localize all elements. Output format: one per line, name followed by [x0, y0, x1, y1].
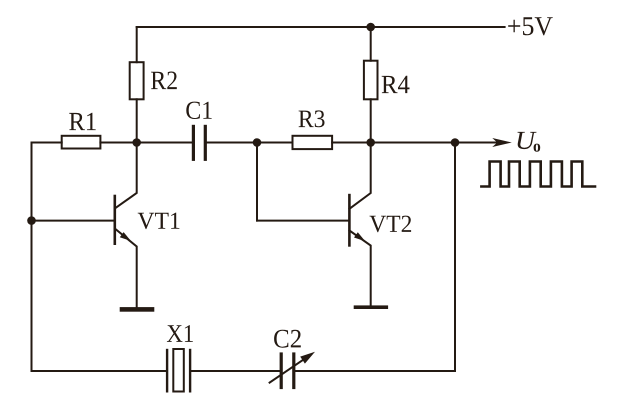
ground VT1 [120, 307, 155, 312]
wire VT2 base feed vertical [256, 143, 258, 221]
resistor R1 [62, 113, 101, 149]
wire bottom left [32, 370, 167, 372]
resistor R2 [130, 62, 177, 99]
node junction output feedback [451, 138, 460, 147]
wire VT2 base horizontal [257, 220, 348, 222]
wire R3 right to output [332, 142, 502, 144]
wire R1 right to C1 [100, 142, 191, 144]
wire X1 to C2 [191, 370, 280, 372]
wire R2 bottom [136, 99, 138, 142]
wire right vertical feedback [454, 143, 456, 372]
node junction R1-R2-C1 [132, 138, 141, 147]
transistor VT1 [115, 143, 180, 308]
node junction rail-R4 [366, 23, 375, 32]
node junction left-VT1base [27, 216, 36, 225]
transistor VT2 [349, 143, 411, 306]
node junction R4-VT2collector [366, 138, 375, 147]
wire R4 bottom [370, 99, 372, 142]
output label Uo [518, 132, 541, 152]
wire R4 top [370, 27, 372, 61]
wire C1 right to R3 [207, 142, 293, 144]
resistor R3 [293, 110, 333, 149]
capacitor C2 variable [270, 330, 315, 388]
power label +5V [508, 17, 553, 35]
wire +5V top rail [137, 26, 505, 28]
resistor R4 [364, 61, 410, 100]
wire left vertical [31, 143, 33, 372]
ground VT2 [354, 305, 388, 309]
capacitor C1 [186, 102, 211, 160]
wire C2 right [295, 370, 455, 372]
waveform square wave [481, 162, 595, 187]
crystal X1 [167, 325, 193, 391]
wire R1 left [32, 142, 62, 144]
wire VT1 base [32, 220, 114, 222]
wire R2 top [136, 27, 138, 62]
node junction C1-R3-VT2base [253, 138, 262, 147]
output arrow [492, 138, 512, 147]
